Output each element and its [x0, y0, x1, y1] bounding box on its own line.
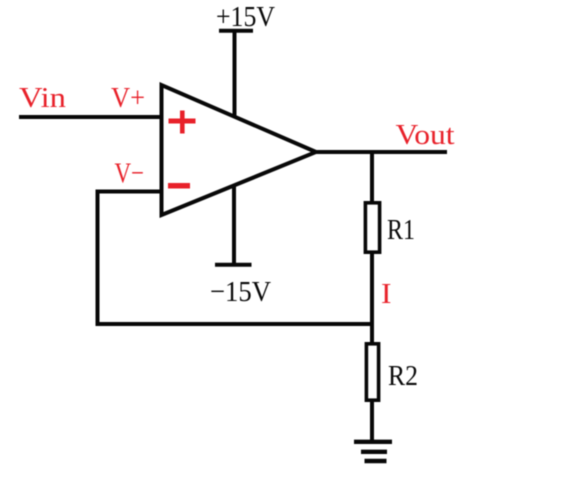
svg-text:V−: V−	[115, 158, 145, 190]
svg-text:I: I	[381, 278, 392, 310]
svg-text:Vout: Vout	[396, 119, 455, 151]
svg-text:+15V: +15V	[216, 1, 275, 33]
svg-text:R1: R1	[387, 214, 415, 246]
svg-text:−15V: −15V	[210, 276, 271, 308]
svg-text:Vin: Vin	[19, 82, 67, 114]
svg-text:V+: V+	[111, 82, 145, 114]
svg-text:R2: R2	[388, 360, 418, 392]
